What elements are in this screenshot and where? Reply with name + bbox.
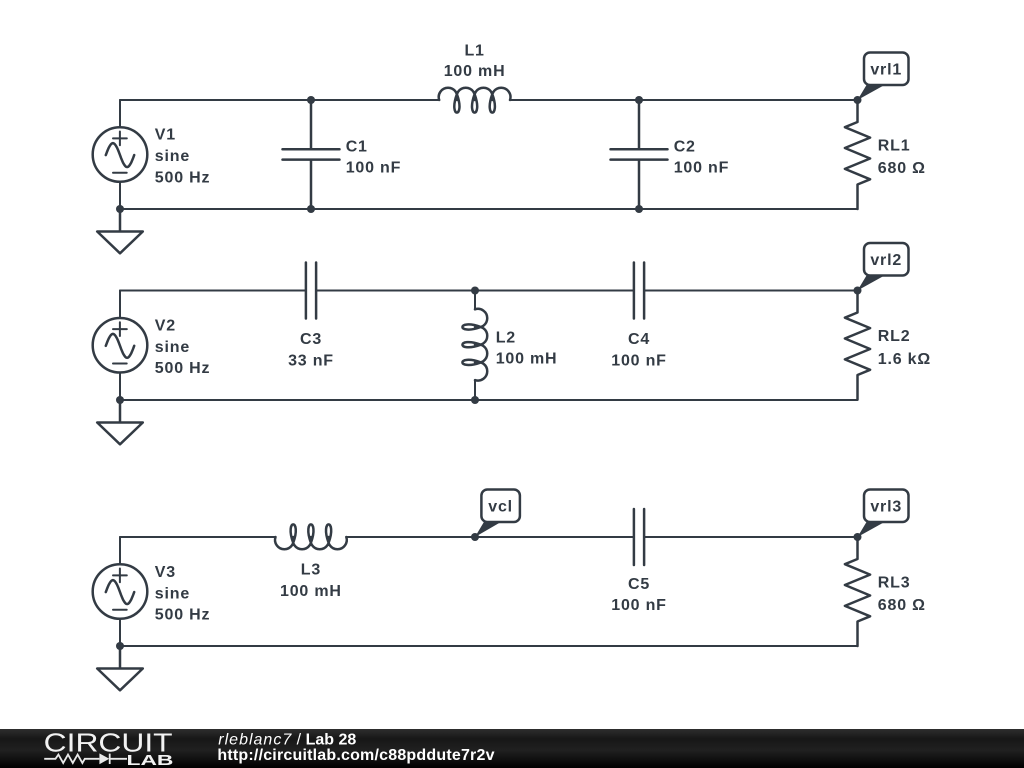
CircuitLab logo resistor-diode glyph (44, 754, 127, 764)
C1 labels (346, 138, 402, 176)
L2 labels (496, 329, 558, 367)
capacitor C5 (634, 509, 644, 565)
svg-text:100 nF: 100 nF (346, 159, 402, 176)
L1 labels (444, 42, 506, 80)
svg-text:RL1: RL1 (878, 137, 911, 154)
svg-text:100 mH: 100 mH (280, 583, 342, 600)
wire row3 top-left (to L3) (120, 536, 275, 538)
svg-text:L2: L2 (496, 329, 516, 346)
wire V3 bottom lead (119, 619, 121, 646)
RL1 labels (878, 137, 926, 177)
ground row1 (97, 209, 143, 253)
svg-text:sine: sine (155, 339, 190, 356)
resistor RL2 (845, 291, 870, 400)
svg-text:1.6 kΩ: 1.6 kΩ (878, 351, 931, 368)
svg-text:680 Ω: 680 Ω (878, 160, 926, 177)
node C1 bottom (307, 205, 315, 213)
svg-text:V3: V3 (155, 564, 176, 581)
wire row3 top-right (C5 to vrl3 node) (644, 536, 857, 538)
svg-text:http://circuitlab.com/c88pddut: http://circuitlab.com/c88pddute7r2v (217, 747, 494, 764)
ground row3 (97, 646, 143, 690)
node gnd row3 (116, 642, 124, 650)
footer bar (0, 729, 1024, 768)
svg-text:100 mH: 100 mH (444, 63, 506, 80)
probe flag vrl3 (858, 490, 909, 538)
wire row2 top-left (to C3) (120, 290, 306, 292)
svg-text:RL2: RL2 (878, 328, 911, 345)
node C1 top (307, 96, 315, 104)
RL2 labels (878, 328, 931, 368)
svg-text:L1: L1 (464, 42, 484, 59)
svg-text:vrl3: vrl3 (870, 498, 902, 515)
capacitor C1 (283, 100, 340, 209)
svg-text:sine: sine (155, 148, 190, 165)
svg-text:C3: C3 (300, 331, 322, 348)
svg-text:V2: V2 (155, 317, 176, 334)
svg-text:vrl2: vrl2 (870, 252, 902, 269)
svg-text:LAB: LAB (127, 752, 174, 768)
ground row2 (97, 400, 143, 444)
node gnd row1 (116, 205, 124, 213)
svg-text:rleblanc7 / Lab 28: rleblanc7 / Lab 28 (218, 731, 356, 748)
voltage source V2 (93, 318, 148, 373)
C5 labels (611, 576, 667, 614)
wire V3 top lead (119, 537, 121, 564)
wire V2 top lead (119, 291, 121, 319)
wire V1 bottom lead (119, 182, 121, 209)
resistor RL3 (845, 537, 870, 646)
node C2 bottom (635, 205, 643, 213)
inductor L3 (humps down, loops up) (275, 524, 347, 549)
wire row1 bottom (120, 208, 858, 210)
inductor L1 (439, 88, 511, 113)
wire row2 top-right (C4 to vrl2 node) (644, 290, 857, 292)
svg-text:33 nF: 33 nF (288, 352, 334, 369)
probe flag vrl2 (858, 243, 909, 291)
capacitor C4 (634, 263, 644, 319)
capacitor C2 (611, 100, 668, 209)
probe flag vrl1 (858, 53, 909, 101)
wire row3 bottom (120, 645, 858, 647)
wire V2 bottom lead (119, 373, 121, 400)
node L2 bottom (471, 396, 479, 404)
svg-text:C1: C1 (346, 138, 368, 155)
C3 labels (288, 331, 334, 370)
wire row2 top-mid (C3 to C4) (316, 290, 634, 292)
svg-text:C4: C4 (628, 331, 650, 348)
wire V1 top lead (119, 100, 121, 127)
wire row3 top-mid (L3 to C5) (346, 536, 634, 538)
node L2 top (471, 287, 479, 295)
svg-text:L3: L3 (301, 561, 321, 578)
node vrl2 (854, 287, 862, 295)
svg-text:RL3: RL3 (878, 574, 911, 591)
svg-text:500 Hz: 500 Hz (155, 169, 211, 186)
wire row1 top-left (node A to L1) (120, 99, 439, 101)
capacitor C3 (306, 263, 316, 319)
node vrl1 (854, 96, 862, 104)
svg-text:500 Hz: 500 Hz (155, 607, 211, 624)
node vrl3 (854, 533, 862, 541)
node gnd row2 (116, 396, 124, 404)
RL3 labels (878, 574, 926, 614)
svg-text:vrl1: vrl1 (870, 61, 902, 78)
svg-text:100 nF: 100 nF (611, 352, 667, 369)
C2 labels (674, 138, 730, 176)
resistor RL1 (845, 100, 870, 209)
svg-text:V1: V1 (155, 127, 176, 144)
wire row1 top-right (L1 to vrl1 node) (510, 99, 858, 101)
V3 labels (155, 564, 211, 624)
svg-text:C5: C5 (628, 576, 650, 593)
node vcl (471, 533, 479, 541)
svg-text:100 nF: 100 nF (611, 597, 667, 614)
L3 labels (280, 561, 342, 600)
svg-text:vcl: vcl (488, 498, 513, 515)
V2 labels (155, 317, 211, 377)
probe flag vcl (475, 490, 520, 538)
V1 labels (155, 127, 211, 187)
svg-text:100 nF: 100 nF (674, 159, 730, 176)
svg-text:C2: C2 (674, 138, 696, 155)
voltage source V1 (93, 127, 148, 182)
svg-text:sine: sine (155, 586, 190, 603)
wire row2 bottom (120, 399, 858, 401)
voltage source V3 (93, 564, 148, 619)
svg-text:500 Hz: 500 Hz (155, 360, 211, 377)
node C2 top (635, 96, 643, 104)
svg-text:680 Ω: 680 Ω (878, 597, 926, 614)
inductor L2 (vertical) (474, 291, 476, 310)
svg-text:100 mH: 100 mH (496, 351, 558, 368)
C4 labels (611, 331, 667, 370)
